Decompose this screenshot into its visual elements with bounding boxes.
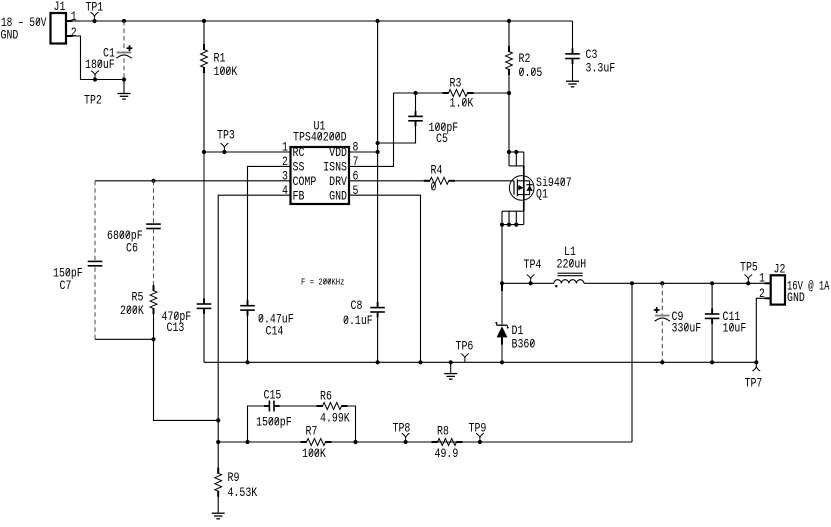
label R8 — [437, 424, 449, 439]
ground — [212, 513, 225, 519]
label R2 — [519, 51, 531, 66]
label pin 8 — [353, 140, 359, 155]
test point TP9 — [476, 433, 484, 444]
label C13 — [167, 320, 185, 335]
label Q1 — [536, 187, 548, 202]
svg-text:49.9: 49.9 — [435, 446, 459, 461]
wire COMP network to FB — [154, 339, 221, 422]
svg-text:J1: J1 — [54, 0, 66, 14]
svg-text:GND: GND — [787, 290, 805, 305]
inductor L1 — [554, 273, 584, 287]
label U1 pin SS — [293, 159, 305, 174]
label C5 — [436, 131, 448, 146]
capacitor C13 — [197, 152, 212, 362]
label pin 5 — [353, 183, 359, 198]
label R2 value — [519, 65, 543, 80]
label R1 — [214, 51, 226, 66]
label C11 — [723, 309, 741, 324]
svg-text:1: 1 — [71, 9, 77, 24]
svg-text:TP1: TP1 — [85, 0, 103, 15]
label R4 value — [431, 180, 437, 195]
label C6 — [126, 241, 138, 256]
label R7 value — [302, 446, 326, 461]
diode D1 — [495, 283, 509, 364]
label output GND — [787, 290, 805, 305]
transistor Q1 — [500, 150, 534, 227]
label Q1 part — [536, 175, 572, 190]
label L1 — [564, 244, 576, 259]
resistor R7 — [301, 439, 332, 446]
wire feedback line — [218, 441, 632, 443]
svg-text:TP5: TP5 — [740, 260, 758, 275]
label TP2 — [84, 93, 102, 108]
label U1 pin GND — [329, 188, 347, 203]
wire R4 to gate — [452, 180, 514, 182]
label C13 value — [162, 309, 192, 324]
label R9 — [228, 470, 240, 485]
capacitor C3 — [565, 21, 580, 81]
label J2 — [774, 262, 786, 277]
label C5 value — [429, 120, 459, 135]
wire VDD pin — [349, 151, 378, 153]
svg-text:GND: GND — [329, 188, 347, 203]
svg-text:10uF: 10uF — [723, 321, 747, 336]
test point TP6 — [461, 354, 469, 363]
capacitor C7 — [88, 181, 103, 339]
svg-text:TP9: TP9 — [469, 421, 487, 436]
label TP9 — [469, 421, 487, 436]
capacitor C9 — [654, 281, 670, 364]
label C8 — [351, 298, 363, 313]
svg-text:TP2: TP2 — [84, 93, 102, 108]
svg-text:C15: C15 — [264, 388, 282, 403]
svg-text:TP3: TP3 — [217, 128, 235, 143]
label pin 7 — [353, 154, 359, 169]
label pin 3 — [282, 168, 288, 183]
capacitor C5 — [378, 91, 423, 143]
svg-text:TP7: TP7 — [745, 376, 763, 391]
capacitor C1 — [116, 19, 132, 80]
label J1 pin 1 — [71, 9, 77, 24]
svg-text:0.05: 0.05 — [519, 65, 543, 80]
test point TP1 — [91, 12, 99, 23]
label U1 freq note — [301, 277, 345, 288]
label TP5 — [740, 260, 758, 275]
svg-text:DRV: DRV — [329, 174, 347, 189]
test point TP3 — [221, 143, 229, 154]
wire COMP line — [95, 179, 291, 183]
svg-text:R7: R7 — [306, 424, 318, 439]
wire R6 to line — [344, 406, 358, 444]
resistor R8 — [432, 439, 463, 446]
wire C13 corner — [203, 309, 205, 363]
svg-text:2: 2 — [71, 25, 77, 40]
ground — [566, 81, 579, 87]
label J2 pin 2 — [759, 286, 765, 301]
label R4 — [431, 163, 443, 178]
svg-text:GND: GND — [1, 27, 19, 42]
label TP4 — [524, 257, 542, 272]
capacitor C11 — [705, 281, 720, 364]
wire J2 pin2 — [754, 298, 771, 364]
resistor R5 — [150, 285, 157, 341]
svg-text:C14: C14 — [266, 324, 284, 339]
svg-text:TP4: TP4 — [524, 257, 542, 272]
svg-text:VDD: VDD — [329, 145, 347, 160]
svg-text:1.0K: 1.0K — [450, 96, 474, 111]
label U1 pin DRV — [329, 174, 347, 189]
svg-text:R2: R2 — [519, 51, 531, 66]
wire R3 to R2 node — [470, 91, 512, 95]
label U1 part — [293, 130, 347, 145]
label input voltage — [1, 15, 47, 30]
label C1 value — [85, 57, 115, 72]
svg-text:0.1uF: 0.1uF — [343, 313, 373, 328]
svg-text:R8: R8 — [437, 424, 449, 439]
label pin 2 — [282, 154, 288, 169]
label input GND — [1, 27, 19, 42]
wire output line — [502, 282, 764, 284]
svg-text:R4: R4 — [431, 163, 443, 178]
svg-text:COMP: COMP — [293, 174, 317, 189]
label R5 — [132, 290, 144, 305]
test point TP7 — [752, 362, 760, 371]
svg-text:R3: R3 — [450, 76, 462, 91]
wire VDD vertical — [376, 19, 380, 308]
svg-text:200K: 200K — [120, 303, 144, 318]
label C11 value — [723, 321, 747, 336]
svg-text:Q1: Q1 — [536, 187, 548, 202]
connector J2 — [771, 275, 785, 304]
resistor R2 — [506, 19, 513, 152]
label C15 — [264, 388, 282, 403]
svg-text:RC: RC — [293, 145, 305, 160]
label R9 value — [228, 485, 258, 500]
label R1 value — [214, 64, 238, 79]
label J1 pin 2 — [71, 25, 77, 40]
svg-text:1500pF: 1500pF — [256, 415, 292, 430]
label pin 1 — [282, 140, 288, 155]
svg-text:F = 200KHz: F = 200KHz — [301, 277, 345, 288]
capacitor C14 — [240, 300, 255, 364]
label C14 — [266, 324, 284, 339]
svg-text:TP8: TP8 — [393, 421, 411, 436]
label TP6 — [456, 339, 474, 354]
label U1 pin VDD — [329, 145, 347, 160]
svg-text:J2: J2 — [774, 262, 786, 277]
wire FB to divider — [216, 195, 290, 444]
label R8 value — [435, 446, 459, 461]
wire C15 branch — [245, 406, 319, 444]
test point TP5 — [744, 275, 752, 286]
svg-text:TPS40200D: TPS40200D — [293, 130, 347, 145]
label U1 pin ISNS — [323, 159, 347, 174]
test point TP4 — [527, 275, 535, 286]
capacitor C8 — [370, 302, 385, 364]
svg-text:4.99K: 4.99K — [320, 411, 350, 426]
wire C7 to R5 node — [95, 338, 154, 340]
label C6 value — [107, 228, 143, 243]
label U1 — [314, 119, 326, 134]
ground — [118, 77, 131, 99]
wire J1 pin2 to C1 bottom — [66, 36, 124, 80]
label TP3 — [217, 128, 235, 143]
svg-text:1: 1 — [282, 140, 288, 155]
label output voltage — [787, 279, 830, 294]
label C14 value — [258, 312, 294, 327]
svg-text:100K: 100K — [302, 446, 326, 461]
wire SS to C14 — [248, 166, 291, 305]
label C8 value — [343, 313, 373, 328]
label L1 value — [557, 256, 587, 271]
wire RC to U1 — [202, 150, 291, 154]
wire DRV to R4 — [349, 180, 427, 182]
svg-text:FB: FB — [293, 188, 305, 203]
label TP8 — [393, 421, 411, 436]
label TP1 — [85, 0, 103, 15]
svg-text:4.53K: 4.53K — [228, 485, 258, 500]
label C7 — [60, 278, 72, 293]
label R7 — [306, 424, 318, 439]
wire J2 pin1 — [764, 282, 771, 284]
label C15 value — [256, 415, 292, 430]
test point TP8 — [402, 433, 410, 444]
capacitor C6 — [146, 181, 161, 291]
svg-text:3.3uF: 3.3uF — [586, 61, 616, 76]
wire top rail VIN — [80, 20, 573, 22]
wire ISNS to R3 — [349, 93, 444, 166]
connector J1 — [51, 13, 81, 44]
svg-text:ISNS: ISNS — [323, 159, 347, 174]
label D1 value — [512, 337, 536, 352]
svg-text:R9: R9 — [228, 470, 240, 485]
label C7 value — [53, 266, 83, 281]
label J2 pin 1 — [759, 271, 765, 286]
svg-text:C8: C8 — [351, 298, 363, 313]
label pin 4 — [282, 183, 288, 198]
label U1 pin RC — [293, 145, 305, 160]
label U1 pin COMP — [293, 174, 317, 189]
resistor R9 — [215, 442, 222, 513]
label C9 value — [672, 321, 702, 336]
capacitor C15 — [264, 401, 280, 412]
svg-text:R6: R6 — [320, 389, 332, 404]
label pin 6 — [353, 168, 359, 183]
svg-text:100K: 100K — [214, 64, 238, 79]
resistor R3 — [443, 90, 474, 97]
label TP7 — [745, 376, 763, 391]
resistor R4 — [424, 177, 455, 184]
svg-text:C5: C5 — [436, 131, 448, 146]
label C9 — [672, 309, 684, 324]
label J1 — [54, 0, 66, 14]
svg-text:1: 1 — [759, 271, 765, 286]
label R6 — [320, 389, 332, 404]
label C3 value — [586, 61, 616, 76]
ground — [444, 360, 457, 379]
svg-text:2: 2 — [759, 286, 765, 301]
label C1 — [103, 46, 115, 61]
wire output to feedback — [630, 281, 634, 442]
svg-text:SS: SS — [293, 159, 305, 174]
svg-text:C13: C13 — [167, 320, 185, 335]
label U1 pin FB — [293, 188, 305, 203]
label R6 value — [320, 411, 350, 426]
label C3 — [586, 47, 598, 62]
wire Q1 drain to switch node — [500, 225, 504, 286]
wire ground rail — [204, 361, 756, 363]
IC U1 TPS40200D — [291, 147, 350, 204]
wire GND pin to rail — [349, 195, 423, 364]
label D1 — [512, 323, 524, 338]
label R3 value — [450, 96, 474, 111]
resistor R1 — [201, 19, 208, 152]
label R3 — [450, 76, 462, 91]
test point TP2 — [91, 71, 99, 82]
svg-text:C6: C6 — [126, 241, 138, 256]
resistor R6 — [317, 403, 348, 410]
label R5 value — [120, 303, 144, 318]
svg-text:C7: C7 — [60, 278, 72, 293]
svg-text:TP6: TP6 — [456, 339, 474, 354]
